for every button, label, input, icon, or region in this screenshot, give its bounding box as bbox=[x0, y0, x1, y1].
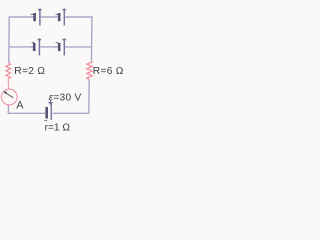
svg-text:r=1 Ω: r=1 Ω bbox=[45, 122, 71, 133]
battery cell B3 negative plate bbox=[33, 43, 36, 51]
battery cell B3 minus mark bbox=[32, 42, 35, 44]
resistor R2 zigzag R=6 ohm bbox=[87, 61, 92, 80]
battery cell B1 minus mark bbox=[31, 13, 34, 15]
wire branch2 middle segment bbox=[40, 46, 57, 48]
wire branch1 right segment bbox=[65, 16, 92, 18]
battery cell B1 plus tick bbox=[38, 9, 42, 11]
battery B5 positive plate bbox=[50, 102, 52, 120]
ammeter needle bbox=[4, 92, 13, 98]
wire branch2 left segment bbox=[9, 46, 33, 48]
battery cell B4 plus tick bbox=[62, 39, 66, 41]
battery cell B2 positive plate bbox=[63, 9, 65, 26]
svg-text:A: A bbox=[16, 99, 24, 111]
battery cell B3 plus tick bbox=[38, 39, 42, 41]
battery cell B2 negative plate bbox=[58, 13, 61, 21]
wire ammeter to bottom-left corner bbox=[8, 105, 45, 113]
svg-text:R=6 Ω: R=6 Ω bbox=[93, 66, 124, 77]
ammeter A1 circle bbox=[1, 89, 17, 105]
wire branch2 right segment bbox=[65, 46, 92, 48]
wire branch1 middle segment bbox=[41, 16, 58, 18]
wire left vertical bbox=[8, 16, 10, 63]
resistor R1 zigzag R=2 ohm bbox=[6, 63, 11, 79]
battery cell B4 minus mark bbox=[56, 42, 59, 44]
battery cell B3 positive plate bbox=[38, 38, 40, 55]
battery B5 plus tick bbox=[48, 102, 52, 104]
svg-text:ε=30 V: ε=30 V bbox=[49, 93, 82, 104]
wire right vertical bbox=[90, 16, 93, 60]
wire battery to bottom-right corner and up bbox=[53, 80, 89, 114]
wire branch1 left segment bbox=[9, 16, 33, 18]
svg-text:R=2 Ω: R=2 Ω bbox=[14, 66, 45, 77]
battery B5 negative plate bbox=[45, 107, 48, 119]
battery cell B4 negative plate bbox=[58, 43, 61, 51]
battery cell B4 positive plate bbox=[63, 38, 65, 55]
ammeter needle arrowhead bbox=[3, 91, 7, 94]
battery cell B2 plus tick bbox=[62, 9, 66, 11]
battery cell B1 positive plate bbox=[39, 9, 41, 26]
battery cell B1 negative plate bbox=[33, 13, 36, 21]
wire R1 to ammeter bbox=[7, 79, 9, 89]
battery B5 minus mark bbox=[44, 119, 47, 121]
battery cell B2 minus mark bbox=[56, 13, 59, 15]
